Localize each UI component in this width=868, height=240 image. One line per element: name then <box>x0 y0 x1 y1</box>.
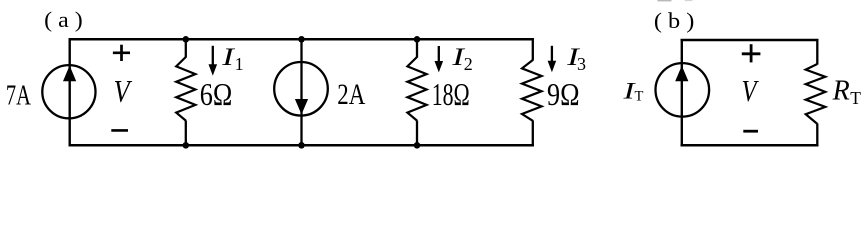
wire top rail of circuit a <box>69 38 535 41</box>
wire bottom rail of circuit a <box>69 144 535 147</box>
current source 7A <box>42 65 95 118</box>
svg-text:3: 3 <box>577 54 586 74</box>
resistor 18ohm branch wire <box>416 39 418 57</box>
wire right edge top stub circuit b <box>816 40 818 65</box>
wire right edge bottom stub circuit b <box>816 124 818 146</box>
resistor 18ohm <box>407 57 426 121</box>
current arrow I2 <box>438 46 440 63</box>
resistor 6ohm branch wire <box>185 39 187 57</box>
current source 2A <box>300 39 302 145</box>
wire bottom rail of circuit b <box>681 144 819 147</box>
svg-text:6Ω: 6Ω <box>200 76 233 112</box>
svg-text:R: R <box>832 76 850 107</box>
plus sign of V (a) <box>113 45 130 61</box>
wire left edge of circuit b <box>681 40 683 145</box>
node dot top 18ohm <box>414 36 421 43</box>
svg-text:2A: 2A <box>337 78 365 111</box>
resistor 6ohm <box>176 57 195 121</box>
node dot bottom 6ohm <box>183 142 190 149</box>
current source IT <box>656 63 710 117</box>
svg-text:( a ): ( a ) <box>44 7 83 32</box>
resistor RT <box>806 64 826 124</box>
svg-text:7A: 7A <box>6 81 32 112</box>
stray scan mark above (b) <box>658 0 672 1</box>
svg-text:1: 1 <box>235 54 244 74</box>
resistor 9ohm <box>522 60 542 121</box>
node dot bottom 18ohm <box>414 142 421 149</box>
wire right edge bottom stub circuit a <box>532 120 534 145</box>
plus sign of V (b) <box>742 44 761 62</box>
svg-text:18Ω: 18Ω <box>432 76 470 112</box>
minus sign of V (a) <box>111 129 128 132</box>
current arrow I1 <box>212 46 214 66</box>
wire left edge of circuit a <box>68 39 70 145</box>
svg-text:T: T <box>635 89 644 105</box>
node dot top 2A <box>298 36 305 43</box>
svg-text:2: 2 <box>464 54 473 74</box>
svg-text:9Ω: 9Ω <box>547 76 580 112</box>
minus sign of V (b) <box>743 130 758 133</box>
svg-text:T: T <box>850 88 861 108</box>
node dot bottom 2A <box>298 142 305 149</box>
current arrow I3 <box>551 46 553 62</box>
wire top rail of circuit b <box>681 39 819 42</box>
svg-text:( b ): ( b ) <box>654 8 695 33</box>
node dot top 6ohm <box>183 36 190 43</box>
wire right edge top stub circuit a <box>532 39 534 60</box>
